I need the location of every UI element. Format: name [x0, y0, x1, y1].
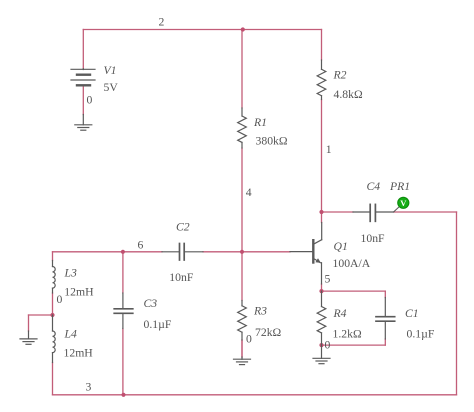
svg-text:3: 3 [86, 380, 92, 393]
svg-text:12mH: 12mH [64, 286, 94, 299]
svg-text:6: 6 [138, 238, 144, 251]
svg-text:10nF: 10nF [169, 271, 194, 284]
svg-text:C2: C2 [176, 220, 190, 233]
svg-text:C1: C1 [405, 307, 419, 320]
svg-text:12mH: 12mH [64, 346, 94, 359]
svg-text:5: 5 [325, 272, 331, 285]
svg-text:L3: L3 [64, 267, 78, 280]
svg-text:2: 2 [159, 15, 165, 28]
svg-text:0.1µF: 0.1µF [144, 318, 172, 331]
svg-text:4: 4 [246, 186, 252, 199]
svg-text:0: 0 [325, 339, 331, 352]
svg-text:C4: C4 [367, 180, 381, 193]
svg-text:V: V [400, 198, 407, 208]
svg-text:R2: R2 [333, 69, 347, 82]
svg-text:R3: R3 [253, 305, 267, 318]
svg-text:100A/A: 100A/A [333, 257, 371, 270]
svg-text:1.2kΩ: 1.2kΩ [333, 327, 362, 340]
svg-text:1: 1 [326, 143, 332, 156]
svg-text:380kΩ: 380kΩ [256, 135, 288, 148]
svg-text:4.8kΩ: 4.8kΩ [334, 88, 363, 101]
svg-text:Q1: Q1 [334, 240, 348, 253]
svg-text:R1: R1 [253, 116, 267, 129]
svg-text:72kΩ: 72kΩ [255, 326, 282, 339]
svg-text:R4: R4 [333, 307, 347, 320]
svg-text:PR1: PR1 [389, 180, 410, 193]
svg-text:10nF: 10nF [361, 232, 386, 245]
svg-text:V1: V1 [104, 64, 117, 77]
svg-text:5V: 5V [104, 81, 119, 94]
svg-text:0.1µF: 0.1µF [407, 327, 435, 340]
svg-text:0: 0 [87, 94, 93, 107]
svg-text:0: 0 [57, 293, 63, 306]
svg-text:0: 0 [246, 333, 252, 346]
svg-text:C3: C3 [144, 297, 158, 310]
svg-text:L4: L4 [64, 328, 78, 341]
